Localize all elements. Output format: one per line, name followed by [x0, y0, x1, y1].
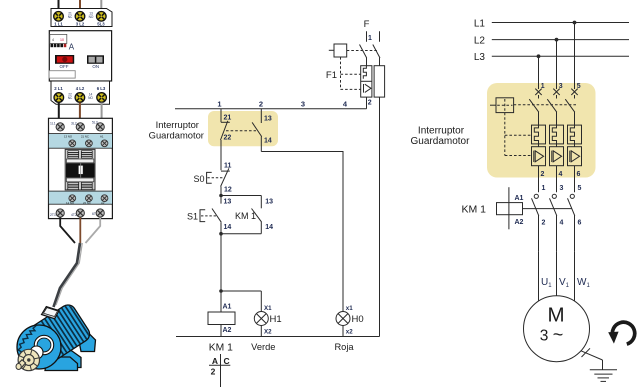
svg-text:3: 3: [301, 100, 305, 109]
svg-text:KM 1: KM 1: [235, 211, 256, 221]
svg-text:L2: L2: [474, 35, 486, 46]
svg-text:S0: S0: [193, 174, 204, 184]
svg-text:13: 13: [224, 199, 232, 206]
wire right riser to breaker: [379, 97, 381, 336]
lamp H0 (red): [336, 305, 364, 337]
breaker F1 pole 1 (terminals 1-2): [529, 83, 545, 192]
svg-text:A: A: [212, 356, 218, 366]
contactor body: [49, 118, 113, 218]
svg-text:1: 1: [368, 35, 372, 42]
terminal screws bottom: [54, 93, 64, 103]
coupling dashes to poles: [514, 104, 578, 106]
contactor lower blue band: [49, 191, 113, 204]
retention contact KM1 13-14: [235, 196, 273, 234]
motor: finned end disc: [17, 325, 61, 369]
KM1 main contact pole 1: [532, 185, 553, 301]
KM1 main contact pole 3: [568, 185, 591, 301]
motor: right foot: [61, 346, 81, 368]
svg-text:14: 14: [264, 138, 272, 145]
pole 1 exit to bus: [366, 97, 368, 109]
wire L3: [492, 55, 629, 57]
dial window: [50, 34, 67, 43]
motor cable: [54, 243, 81, 307]
svg-text:2: 2: [211, 367, 216, 377]
breaker F1 pole 3 (terminals 5-6): [565, 83, 581, 192]
svg-text:H0: H0: [352, 314, 364, 325]
svg-text:6: 6: [578, 220, 582, 227]
svg-text:x2: x2: [346, 329, 353, 336]
svg-text:10: 10: [60, 38, 64, 42]
pushbutton S1 NO 13-14: [187, 196, 231, 234]
KM1 main contact pole 2: [550, 185, 570, 296]
highlight box guardamotor: [487, 83, 596, 178]
svg-text:A1: A1: [100, 135, 104, 139]
svg-text:12: 12: [224, 187, 232, 194]
pushbutton S0 NC 11-12: [193, 162, 231, 195]
svg-text:5: 5: [578, 185, 582, 192]
wires guardamotor to contactor: [58, 103, 60, 120]
ON button: [87, 55, 104, 64]
svg-text:A: A: [69, 43, 75, 52]
svg-text:A2: A2: [515, 219, 524, 226]
wire top bus: [175, 108, 367, 110]
ground connection: [581, 348, 617, 381]
svg-text:A2: A2: [223, 327, 232, 334]
trip unit box pole 1: [361, 66, 372, 97]
svg-text:13: 13: [264, 115, 272, 122]
svg-text:H1: H1: [270, 314, 282, 325]
svg-text:4: 4: [559, 171, 563, 178]
svg-text:OFF: OFF: [60, 64, 69, 69]
contactor mechanism: [65, 149, 95, 190]
svg-text:A1: A1: [223, 303, 232, 310]
rotation arrow: [608, 322, 635, 344]
svg-text:14: 14: [265, 224, 273, 231]
svg-text:1: 1: [217, 100, 221, 109]
svg-text:NC: NC: [68, 96, 73, 100]
taps: [573, 21, 577, 25]
terminal screws top: [54, 11, 64, 21]
svg-text:4: 4: [52, 38, 54, 42]
guardamotor body: [49, 31, 111, 81]
breaker F1 pole 2 (terminals 3-4): [547, 83, 563, 192]
svg-text:F1: F1: [326, 70, 337, 81]
svg-text:X1: X1: [264, 305, 272, 312]
motor: body: [27, 301, 93, 364]
coil KM1 A1-A2: [208, 303, 235, 336]
svg-text:ON: ON: [92, 64, 99, 69]
svg-text:6: 6: [577, 171, 581, 178]
motor: front foot: [45, 357, 78, 371]
pulley gear: [16, 349, 40, 370]
thermal element: [363, 66, 366, 79]
motor: terminal box: [42, 307, 60, 319]
svg-text:L3: L3: [474, 52, 486, 63]
svg-text:NC: NC: [68, 15, 73, 19]
svg-text:Roja: Roja: [334, 342, 354, 352]
svg-text:3: 3: [560, 185, 564, 192]
mechanical link dashes between 21-22 and 13-14: [226, 130, 256, 132]
svg-text:2: 2: [541, 171, 545, 178]
node after S0: [219, 194, 223, 198]
incoming wires: [58, 0, 60, 9]
svg-text:A1: A1: [515, 195, 524, 202]
motor M 3~: [524, 296, 590, 362]
svg-text:2: 2: [542, 220, 546, 227]
svg-text:13 NO: 13 NO: [64, 135, 73, 139]
pole 1 arm: [360, 45, 367, 59]
svg-text:22 NC: 22 NC: [83, 201, 91, 205]
svg-text:NO: NO: [88, 96, 93, 100]
svg-text:1L1: 1L1: [50, 122, 56, 126]
svg-text:C: C: [224, 356, 230, 366]
wire bottom of parallel branch: [221, 233, 261, 235]
svg-text:2: 2: [259, 100, 263, 109]
magnetic element I>: [363, 84, 365, 93]
actuator box: [334, 44, 347, 57]
svg-text:L1: L1: [474, 18, 486, 29]
svg-text:X2: X2: [264, 329, 272, 336]
label window: [49, 71, 75, 78]
pole 1 lead: [366, 31, 368, 41]
svg-text:3 ~: 3 ~: [540, 325, 563, 345]
svg-text:KM 1: KM 1: [209, 343, 233, 354]
contactor upper blue band: [49, 134, 113, 149]
contactor KM1 (power): [461, 187, 571, 229]
guardamotor NC aux contact 21-22: [221, 109, 232, 170]
OFF button: [55, 55, 74, 64]
svg-text:1 L1: 1 L1: [54, 21, 63, 26]
svg-text:3L2: 3L2: [71, 122, 77, 126]
pole 2 lead: [379, 31, 381, 41]
svg-text:x1: x1: [346, 305, 353, 312]
wire L1: [492, 22, 629, 24]
guardamotor NO aux contact 13-14: [252, 109, 272, 152]
node branch to H1: [219, 289, 223, 293]
svg-text:2: 2: [368, 99, 372, 106]
lamp H1 (green): [254, 291, 281, 337]
svg-text:NO: NO: [89, 15, 94, 19]
svg-text:1: 1: [542, 185, 546, 192]
shaft boss: [30, 346, 43, 359]
pole 2 arm: [373, 45, 380, 59]
svg-text:S1: S1: [187, 212, 198, 222]
svg-text:2 L1: 2 L1: [54, 86, 63, 91]
svg-text:3 L2: 3 L2: [76, 21, 85, 26]
breaker F (control circuit supply): [326, 19, 385, 109]
wire down to coil: [220, 234, 222, 312]
svg-text:13: 13: [265, 199, 273, 206]
guardamotor top terminal block: [51, 9, 112, 27]
svg-text:14 NO: 14 NO: [66, 201, 75, 205]
svg-text:M: M: [547, 304, 564, 327]
bearing ring: [34, 335, 53, 354]
dial comb: [51, 44, 67, 47]
wire branch to KM1 aux: [221, 195, 261, 197]
svg-text:KM 1: KM 1: [461, 203, 486, 215]
guardamotor bottom terminal block: [51, 81, 110, 104]
svg-text:4: 4: [560, 220, 564, 227]
svg-text:21 NC: 21 NC: [81, 135, 89, 139]
highlight box aux contacts: [208, 111, 278, 146]
contact cross-reference table: [209, 354, 230, 387]
svg-text:6 L3: 6 L3: [97, 86, 106, 91]
svg-text:Guardamotor: Guardamotor: [411, 136, 471, 147]
wire L2: [492, 39, 629, 41]
wire bottom rail: [176, 336, 380, 338]
svg-text:A2: A2: [101, 201, 105, 205]
svg-text:21: 21: [224, 115, 232, 122]
svg-text:14: 14: [224, 224, 232, 231]
svg-text:2T1: 2T1: [50, 213, 56, 217]
svg-text:5L3: 5L3: [97, 21, 105, 26]
svg-text:11: 11: [224, 162, 232, 169]
svg-text:Guardamotor: Guardamotor: [149, 130, 204, 141]
wire from aux 14 to H0: [261, 152, 343, 312]
motor: rear foot: [79, 333, 96, 352]
breaker actuator box: [490, 98, 578, 156]
svg-text:F: F: [364, 19, 370, 30]
svg-text:Verde: Verde: [251, 342, 275, 352]
wires contactor to cable: [60, 218, 75, 244]
svg-text:22: 22: [224, 134, 232, 141]
svg-text:Interruptor: Interruptor: [418, 126, 465, 137]
pole 2 box: [374, 66, 385, 97]
svg-text:4 L2: 4 L2: [76, 86, 85, 91]
trip linkage dashes: [504, 113, 506, 156]
